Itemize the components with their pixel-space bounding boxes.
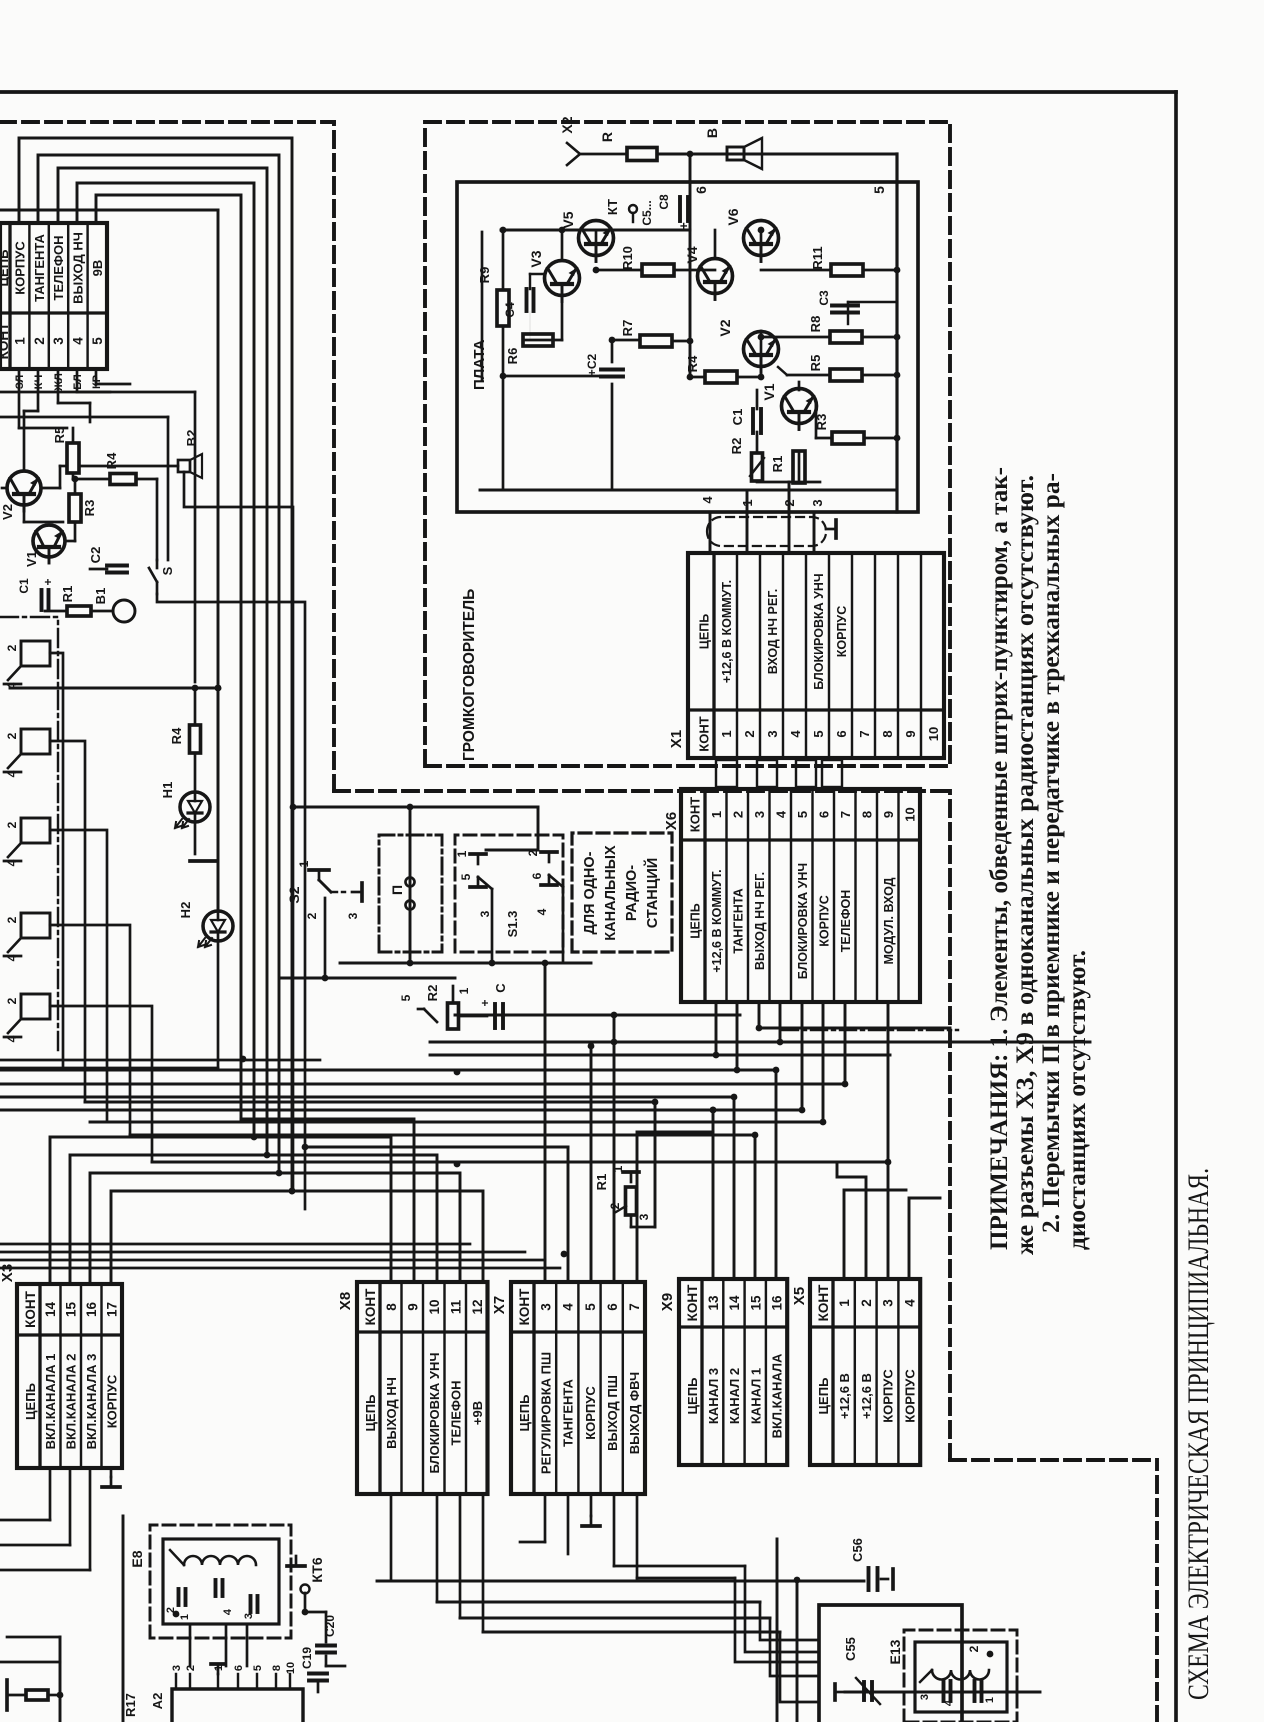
- svg-text:4: 4: [903, 1299, 918, 1307]
- svg-text:В1: В1: [93, 588, 108, 605]
- svg-text:6: 6: [834, 730, 849, 737]
- svg-text:СТАНЦИЙ: СТАНЦИЙ: [643, 858, 661, 928]
- svg-text:КТ: КТ: [605, 199, 620, 215]
- svg-text:РЕГУЛИРОВКА ПШ: РЕГУЛИРОВКА ПШ: [538, 1352, 553, 1474]
- svg-text:ЦЕПЬ: ЦЕПЬ: [816, 1378, 831, 1415]
- svg-text:5: 5: [795, 811, 810, 818]
- svg-text:КТ6: КТ6: [309, 1557, 325, 1582]
- svg-text:Х8: Х8: [337, 1292, 354, 1310]
- svg-text:С2: С2: [88, 547, 103, 564]
- svg-text:+12,6 В КОММУТ.: +12,6 В КОММУТ.: [710, 869, 724, 972]
- svg-text:R5: R5: [808, 355, 823, 372]
- svg-text:КАНАЛ 1: КАНАЛ 1: [748, 1368, 763, 1424]
- svg-text:ЦЕПЬ: ЦЕПЬ: [689, 903, 703, 938]
- svg-text:R6: R6: [505, 348, 520, 365]
- svg-text:В: В: [704, 128, 720, 138]
- svg-text:V3: V3: [528, 250, 544, 267]
- svg-text:Х6: Х6: [663, 812, 680, 830]
- svg-text:2: 2: [859, 1299, 874, 1307]
- svg-text:R11: R11: [810, 246, 825, 269]
- svg-text:Н1: Н1: [160, 782, 175, 799]
- svg-text:3: 3: [51, 337, 66, 345]
- svg-text:КАНАЛ 2: КАНАЛ 2: [727, 1368, 742, 1424]
- svg-text:V1: V1: [24, 551, 39, 567]
- svg-text:КОРПУС: КОРПУС: [12, 241, 27, 295]
- svg-text:5: 5: [252, 1665, 264, 1671]
- svg-text:R17: R17: [123, 1693, 138, 1717]
- svg-text:ВЫХОД НЧ: ВЫХОД НЧ: [384, 1377, 399, 1449]
- svg-text:S: S: [160, 566, 175, 575]
- svg-text:2: 2: [730, 811, 745, 818]
- svg-text:7: 7: [627, 1303, 642, 1311]
- svg-text:2: 2: [165, 1607, 177, 1613]
- svg-text:ЦЕПЬ: ЦЕПЬ: [685, 1378, 700, 1415]
- svg-text:3: 3: [881, 1299, 896, 1307]
- svg-text:ВКЛ.КАНАЛА 2: ВКЛ.КАНАЛА 2: [64, 1354, 79, 1450]
- svg-text:КОНТ: КОНТ: [816, 1284, 831, 1321]
- svg-text:БЛОКИРОВКА УНЧ: БЛОКИРОВКА УНЧ: [427, 1352, 442, 1473]
- svg-text:5: 5: [399, 994, 413, 1001]
- svg-text:4: 4: [943, 1699, 955, 1706]
- svg-text:9: 9: [881, 811, 896, 818]
- svg-text:R10: R10: [620, 246, 635, 270]
- svg-text:R: R: [599, 132, 615, 142]
- svg-text:14: 14: [43, 1302, 58, 1318]
- svg-text:R2: R2: [729, 438, 744, 455]
- svg-text:ЦЕПЬ: ЦЕПЬ: [697, 614, 711, 649]
- svg-text:СХЕМА ЭЛЕКТРИЧЕСКАЯ ПРИНЦИПИ: СХЕМА ЭЛЕКТРИЧЕСКАЯ ПРИНЦИПИАЛЬНАЯ.: [1182, 1168, 1215, 1700]
- svg-text:КОРПУС: КОРПУС: [835, 606, 849, 657]
- svg-text:Х2: Х2: [559, 116, 575, 133]
- svg-text:С19: С19: [300, 1647, 314, 1669]
- svg-text:ЦЕПЬ: ЦЕПЬ: [363, 1395, 378, 1432]
- svg-text:С8: С8: [657, 194, 671, 210]
- svg-text:4: 4: [5, 770, 19, 777]
- svg-text:3: 3: [637, 1213, 651, 1220]
- svg-text:R1: R1: [594, 1174, 609, 1191]
- svg-text:2: 2: [5, 821, 19, 828]
- svg-text:4: 4: [222, 1608, 234, 1615]
- svg-text:10: 10: [285, 1662, 297, 1674]
- svg-text:9: 9: [903, 730, 918, 737]
- svg-text:Е13: Е13: [887, 1639, 903, 1664]
- svg-text:1: 1: [455, 850, 469, 857]
- svg-text:R8: R8: [808, 316, 823, 333]
- svg-text:R1: R1: [770, 456, 785, 473]
- svg-text:ВКЛ.КАНАЛА 3: ВКЛ.КАНАЛА 3: [84, 1354, 99, 1450]
- svg-text:КОНТ: КОНТ: [685, 1284, 700, 1321]
- svg-text:ПЛАТА: ПЛАТА: [471, 339, 488, 390]
- svg-text:6: 6: [693, 186, 709, 194]
- svg-text:3: 3: [752, 811, 767, 818]
- svg-text:ВКЛ.КАНАЛА 1: ВКЛ.КАНАЛА 1: [43, 1354, 58, 1450]
- svg-text:4: 4: [5, 1035, 19, 1042]
- svg-text:1: 1: [984, 1697, 996, 1703]
- svg-text:6: 6: [816, 811, 831, 818]
- svg-text:БЛОКИРОВКА УНЧ: БЛОКИРОВКА УНЧ: [812, 573, 826, 689]
- svg-text:16: 16: [84, 1302, 99, 1318]
- svg-text:4: 4: [5, 859, 19, 866]
- svg-text:Х5: Х5: [791, 1287, 808, 1305]
- svg-text:ВХОД НЧ РЕГ.: ВХОД НЧ РЕГ.: [766, 589, 780, 674]
- svg-text:3: 3: [346, 912, 360, 919]
- svg-text:ЦЕПЬ: ЦЕПЬ: [517, 1395, 532, 1432]
- svg-text:3: 3: [478, 910, 492, 917]
- svg-text:3: 3: [171, 1665, 183, 1671]
- svg-text:КОРПУС: КОРПУС: [583, 1386, 598, 1440]
- svg-text:ТЕЛЕФОН: ТЕЛЕФОН: [839, 890, 853, 953]
- svg-text:5: 5: [459, 873, 473, 880]
- svg-text:4: 4: [5, 954, 19, 961]
- svg-text:5: 5: [90, 337, 105, 345]
- svg-text:КАНАЛ 3: КАНАЛ 3: [706, 1368, 721, 1424]
- svg-text:4: 4: [700, 496, 715, 504]
- svg-text:КОРПУС: КОРПУС: [105, 1374, 120, 1428]
- svg-text:1: 1: [457, 987, 471, 994]
- svg-text:15: 15: [64, 1302, 79, 1318]
- svg-text:2: 2: [526, 849, 540, 856]
- svg-text:2. Перемычки П в приемнике и п: 2. Перемычки П в приемнике и передатчике…: [1038, 473, 1065, 1233]
- svg-text:2: 2: [305, 912, 319, 919]
- svg-text:МОДУЛ. ВХОД: МОДУЛ. ВХОД: [882, 877, 896, 964]
- svg-text:R4: R4: [169, 727, 184, 744]
- svg-text:R2: R2: [425, 985, 440, 1002]
- svg-text:V5: V5: [560, 211, 576, 228]
- svg-text:же разъемы Х3, Х9 в одноканаль: же разъемы Х3, Х9 в одноканальных радиос…: [1012, 475, 1039, 1255]
- svg-text:2: 2: [742, 730, 757, 737]
- svg-text:R3: R3: [82, 500, 97, 517]
- svg-text:С55: С55: [843, 1637, 858, 1661]
- svg-text:1: 1: [719, 730, 734, 737]
- svg-text:5: 5: [871, 186, 887, 194]
- svg-text:2: 2: [5, 916, 19, 923]
- svg-text:S1.3: S1.3: [505, 911, 520, 938]
- svg-text:С1: С1: [17, 578, 31, 594]
- svg-text:3: 3: [538, 1303, 553, 1311]
- svg-text:ВЫХОД ФВЧ: ВЫХОД ФВЧ: [627, 1372, 642, 1454]
- svg-text:+: +: [478, 999, 492, 1006]
- svg-text:+12,6 В: +12,6 В: [859, 1373, 874, 1419]
- svg-text:Х7: Х7: [491, 1296, 508, 1314]
- svg-text:4: 4: [788, 730, 803, 738]
- svg-text:КАНАЛЬНЫХ: КАНАЛЬНЫХ: [603, 845, 619, 941]
- svg-text:ТАНГЕНТА: ТАНГЕНТА: [32, 233, 47, 301]
- svg-text:V1: V1: [761, 383, 777, 400]
- svg-text:9: 9: [405, 1303, 420, 1311]
- svg-text:1: 1: [12, 337, 27, 345]
- svg-text:10: 10: [902, 807, 917, 821]
- svg-text:С1: С1: [730, 409, 745, 426]
- svg-text:КОРПУС: КОРПУС: [881, 1369, 896, 1423]
- svg-text:ЦЕПЬ: ЦЕПЬ: [23, 1383, 38, 1420]
- svg-text:12: 12: [470, 1299, 485, 1314]
- svg-text:4: 4: [773, 810, 788, 818]
- svg-text:БЛОКИРОВКА УНЧ: БЛОКИРОВКА УНЧ: [796, 863, 810, 979]
- svg-text:13: 13: [706, 1295, 721, 1311]
- svg-text:1: 1: [837, 1299, 852, 1307]
- svg-text:6: 6: [605, 1303, 620, 1311]
- svg-text:С: С: [493, 983, 508, 993]
- svg-text:КОНТ: КОНТ: [363, 1288, 378, 1325]
- svg-text:10: 10: [427, 1299, 442, 1314]
- svg-text:+С2: +С2: [585, 354, 599, 377]
- svg-text:10: 10: [926, 727, 941, 741]
- svg-text:3: 3: [919, 1694, 931, 1700]
- svg-text:6: 6: [233, 1665, 245, 1671]
- svg-text:R7: R7: [620, 320, 635, 337]
- svg-text:2: 2: [5, 732, 19, 739]
- svg-text:3: 3: [810, 499, 825, 506]
- svg-text:ПРИМЕЧАНИЯ: 1. Элементы, об: ПРИМЕЧАНИЯ: 1. Элементы, обведенные штри…: [986, 467, 1013, 1250]
- svg-text:17: 17: [105, 1302, 120, 1317]
- svg-text:16: 16: [770, 1295, 785, 1311]
- svg-text:1: 1: [179, 1614, 191, 1620]
- svg-text:ТЕЛЕФОН: ТЕЛЕФОН: [448, 1381, 463, 1446]
- svg-text:6: 6: [530, 872, 544, 879]
- svg-text:ТАНГЕНТА: ТАНГЕНТА: [731, 888, 745, 953]
- svg-text:П: П: [389, 885, 405, 895]
- svg-text:Х3: Х3: [0, 1264, 16, 1282]
- svg-text:V2: V2: [717, 319, 733, 336]
- svg-text:С4: С4: [503, 302, 517, 318]
- svg-text:V4: V4: [684, 246, 700, 263]
- svg-text:8: 8: [859, 811, 874, 818]
- svg-text:9В: 9В: [90, 260, 105, 277]
- svg-text:2: 2: [967, 1645, 981, 1652]
- svg-text:КОНТ: КОНТ: [0, 322, 11, 359]
- svg-text:2: 2: [5, 997, 19, 1004]
- svg-text:7: 7: [857, 730, 872, 737]
- svg-text:ЦЕПЬ: ЦЕПЬ: [0, 250, 11, 287]
- svg-text:КОНТ: КОНТ: [517, 1288, 532, 1325]
- svg-text:4: 4: [71, 337, 86, 345]
- svg-text:КОРПУС: КОРПУС: [903, 1369, 918, 1423]
- svg-text:14: 14: [727, 1295, 742, 1311]
- svg-text:8: 8: [384, 1303, 399, 1311]
- svg-text:В2: В2: [184, 430, 199, 447]
- svg-text:КОНТ: КОНТ: [23, 1290, 38, 1327]
- svg-text:ГРОМКОГОВОРИТЕЛЬ: ГРОМКОГОВОРИТЕЛЬ: [461, 589, 478, 761]
- svg-text:РАДИО-: РАДИО-: [624, 865, 640, 921]
- svg-text:С5...: С5...: [640, 200, 654, 225]
- svg-text:ТЕЛЕФОН: ТЕЛЕФОН: [51, 236, 66, 301]
- svg-text:диостанциях отсутствуют.: диостанциях отсутствуют.: [1064, 950, 1091, 1250]
- svg-text:ВКЛ.КАНАЛА: ВКЛ.КАНАЛА: [770, 1353, 785, 1438]
- svg-text:ТАНГЕНТА: ТАНГЕНТА: [561, 1378, 576, 1446]
- svg-text:Х9: Х9: [659, 1293, 676, 1311]
- svg-text:4: 4: [561, 1303, 576, 1311]
- svg-text:+12,6 В: +12,6 В: [837, 1373, 852, 1419]
- svg-text:+12,6 В КОММУТ.: +12,6 В КОММУТ.: [720, 580, 734, 683]
- svg-text:R4: R4: [685, 355, 700, 372]
- svg-text:3: 3: [765, 730, 780, 737]
- svg-text:ВЫХОД НЧ РЕГ.: ВЫХОД НЧ РЕГ.: [753, 872, 767, 970]
- svg-text:КОНТ: КОНТ: [688, 797, 703, 832]
- svg-text:С56: С56: [850, 1538, 865, 1562]
- svg-text:5: 5: [811, 730, 826, 737]
- svg-text:КОРПУС: КОРПУС: [817, 895, 831, 946]
- svg-text:ДЛЯ ОДНО-: ДЛЯ ОДНО-: [582, 851, 598, 934]
- svg-text:7: 7: [838, 811, 853, 818]
- svg-text:КОНТ: КОНТ: [696, 716, 711, 751]
- svg-text:+: +: [41, 578, 55, 585]
- svg-text:ВЫХОД НЧ: ВЫХОД НЧ: [71, 232, 86, 304]
- svg-text:ВЫХОД ПШ: ВЫХОД ПШ: [605, 1375, 620, 1451]
- svg-text:2: 2: [32, 337, 47, 345]
- svg-text:V2: V2: [0, 504, 15, 520]
- svg-text:1: 1: [709, 811, 724, 818]
- svg-text:С3: С3: [817, 290, 831, 306]
- svg-text:А2: А2: [150, 1693, 165, 1710]
- svg-text:3: 3: [243, 1613, 255, 1619]
- svg-text:V6: V6: [725, 208, 741, 225]
- svg-text:11: 11: [448, 1299, 463, 1314]
- svg-text:4: 4: [535, 908, 549, 915]
- svg-text:2: 2: [5, 644, 19, 651]
- svg-text:Х1: Х1: [668, 730, 685, 748]
- svg-text:Н2: Н2: [178, 902, 193, 919]
- svg-text:5: 5: [583, 1303, 598, 1311]
- svg-text:R1: R1: [60, 586, 75, 603]
- svg-text:+9В: +9В: [470, 1401, 485, 1425]
- svg-text:8: 8: [271, 1665, 283, 1671]
- svg-text:Е8: Е8: [129, 1550, 145, 1567]
- svg-text:R9: R9: [477, 267, 492, 284]
- svg-text:15: 15: [748, 1295, 763, 1311]
- svg-text:8: 8: [880, 730, 895, 737]
